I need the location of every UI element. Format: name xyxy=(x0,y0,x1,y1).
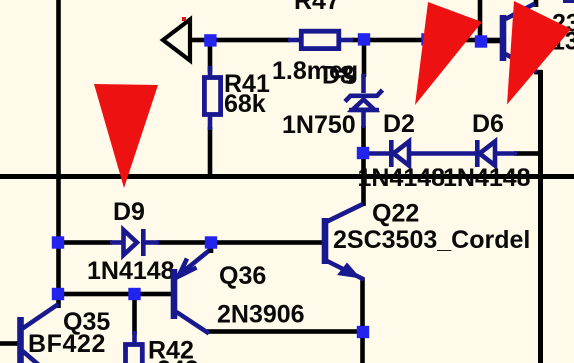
junction node I (R42) xyxy=(128,288,140,300)
wire: Q23 collector stub top xyxy=(534,0,539,7)
wire: Q23 base node to base bar xyxy=(481,39,501,44)
wire: node down to R42 xyxy=(132,294,137,335)
svg-text:D9: D9 xyxy=(113,198,145,226)
wire: D9 net left segment xyxy=(60,240,112,245)
svg-text:1N4148: 1N4148 xyxy=(87,257,175,285)
wire: Q22 emitter vertical to bottom xyxy=(360,278,365,363)
Q36 emitter arrow xyxy=(179,259,197,277)
red pin dot on port xyxy=(182,17,186,21)
red cursor arrow 3 xyxy=(507,1,571,105)
svg-text:R47: R47 xyxy=(294,0,340,15)
svg-text:Q36: Q36 xyxy=(219,262,266,290)
red cursor arrow 1 xyxy=(94,84,158,188)
wire: top net from port to R47 xyxy=(188,38,290,43)
wire: long horizontal net across full width xyxy=(0,174,574,179)
red cursor arrow 2 xyxy=(415,2,482,105)
transistor Q35 npn xyxy=(21,304,59,363)
junction node D (Q23 base) xyxy=(475,35,487,47)
wire: Q35 base stub xyxy=(0,341,19,346)
svg-text:2SC3503_Cordel: 2SC3503_Cordel xyxy=(333,226,530,254)
junction node A (port/R41/R47) xyxy=(204,34,216,46)
zener diode D8 xyxy=(345,74,383,128)
junction node C (hidden by cursor) xyxy=(421,33,433,45)
wire: stub below node G xyxy=(209,247,214,253)
wire: D8 bottom through node to Q22 collector xyxy=(361,126,366,206)
wire: D6 to right vertical net xyxy=(514,151,542,156)
diode D6 (cathode left) xyxy=(477,140,517,167)
wire: lower net Q35/Q36 base row xyxy=(56,292,171,297)
wire: R41 bottom to long net xyxy=(208,127,213,176)
wire: right vertical net xyxy=(538,70,543,363)
svg-text:Q22: Q22 xyxy=(372,200,419,228)
port symbol (input arrow) xyxy=(163,20,190,61)
resistor R47 xyxy=(288,31,353,48)
resistor R41 xyxy=(204,66,220,130)
diode D2 (cathode left) xyxy=(369,140,476,167)
transistor Q36 pnp xyxy=(174,249,211,334)
wire: Q23 emitter corner xyxy=(534,70,542,75)
wire: R47 right to Q23 base xyxy=(352,38,500,43)
svg-text:BF422: BF422 xyxy=(28,330,106,358)
resistor R42 xyxy=(126,331,143,363)
junction node J (Q22 emitter net) xyxy=(357,326,369,338)
junction node E (D8/D2) xyxy=(357,147,369,159)
wire: junction B down to zener D8 xyxy=(362,42,367,77)
junction node G (D9/Q36 emitter) xyxy=(205,236,217,248)
wire: left vertical net xyxy=(56,0,61,308)
Q22 emitter arrow xyxy=(337,263,361,279)
junction node H (left/Q35) xyxy=(52,288,64,300)
svg-text:D2: D2 xyxy=(383,110,415,138)
wire: top stub to Q23 base node xyxy=(478,0,483,41)
junction node F (left/D9) xyxy=(52,236,64,248)
wire: junction A down to R41 xyxy=(208,44,213,72)
wire: D9 net right segment to Q22 base xyxy=(157,240,322,245)
blue stub top right corner xyxy=(563,0,574,3)
svg-text:1N4148: 1N4148 xyxy=(443,164,531,192)
svg-text:D8: D8 xyxy=(322,62,354,90)
svg-text:2N3906: 2N3906 xyxy=(217,301,305,329)
svg-text:1N750: 1N750 xyxy=(282,111,356,139)
svg-text:68k: 68k xyxy=(224,90,266,118)
transistor Q22 npn xyxy=(325,204,364,280)
diode D9 (cathode right) xyxy=(110,229,159,256)
transistor Q23 npn top right xyxy=(503,4,537,73)
svg-text:D6: D6 xyxy=(472,110,504,138)
svg-text:242: 242 xyxy=(157,356,199,363)
svg-text:1N4148: 1N4148 xyxy=(358,164,446,192)
junction node B (R47/D8) xyxy=(358,33,370,45)
wire: Q36 collector net xyxy=(206,329,363,334)
